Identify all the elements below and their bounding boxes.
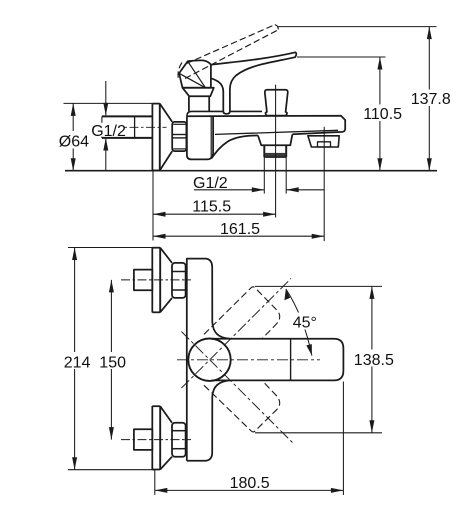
valve body (side) <box>187 116 213 159</box>
lever blade (down position) <box>211 52 296 114</box>
handle cap (hub) <box>179 60 211 87</box>
214 arrows <box>72 248 77 261</box>
upper inlet pipe stub <box>134 270 152 291</box>
flange cone <box>160 104 172 171</box>
dim line G1/2 left upper <box>105 81 107 115</box>
svg-text:G1/2: G1/2 <box>91 123 126 140</box>
161.5 arrows <box>153 234 166 239</box>
cap facet lines <box>179 61 205 88</box>
ext bottom <box>68 469 155 471</box>
ext 138.5 bottom <box>255 432 382 434</box>
dim 180.5 <box>155 489 344 491</box>
dim line G1/2 left lower <box>105 138 107 171</box>
svg-text:115.5: 115.5 <box>192 199 231 216</box>
ext top <box>68 247 155 249</box>
lever 45deg down position (phantom) <box>204 380 280 432</box>
dim line 110.5 <box>379 57 381 171</box>
handle hub circle <box>188 339 230 381</box>
dim line G1/2 bottom right seg <box>286 189 324 191</box>
45deg arc arrows <box>284 289 290 301</box>
aerator at spout tip <box>308 136 339 147</box>
O64 arrows <box>71 103 76 116</box>
hub centerlines <box>177 279 320 444</box>
dim line O64 <box>72 103 74 170</box>
svg-text:180.5: 180.5 <box>230 475 270 492</box>
150 arrows <box>109 280 114 293</box>
cap skirt <box>183 88 214 97</box>
ext 180.5 right <box>342 382 344 496</box>
outlet edge ext lines <box>263 157 265 193</box>
diverter knob <box>265 90 288 116</box>
G1/2 inlet pipe (threaded tail) <box>102 116 152 137</box>
svg-text:110.5: 110.5 <box>363 106 402 123</box>
svg-text:137.8: 137.8 <box>411 91 451 108</box>
dim 214 <box>74 248 76 470</box>
lever 45deg up position (phantom) <box>204 287 280 339</box>
svg-text:214: 214 <box>64 355 91 372</box>
lever grip inner line <box>290 339 292 381</box>
G1/2 left arrows <box>103 103 108 116</box>
svg-text:161.5: 161.5 <box>220 221 260 238</box>
horizontal lever (front) <box>212 339 343 381</box>
45deg leader arc <box>286 289 312 356</box>
svg-text:150: 150 <box>99 355 126 372</box>
G1/2 bottom arrows <box>252 187 264 192</box>
wall flange plate (escutcheon, side) <box>152 103 159 170</box>
dim line 137.8 <box>428 27 430 171</box>
upper flange plate <box>152 248 160 313</box>
svg-text:G1/2: G1/2 <box>193 175 228 192</box>
ext 180.5 left <box>154 470 156 495</box>
raised lever (dashed phantom) <box>178 25 278 88</box>
dim line G1/2 bottom left seg <box>194 189 264 191</box>
115.5 arrows <box>153 212 166 217</box>
spout top edge <box>187 116 345 135</box>
knob / outlet centerline <box>275 85 277 218</box>
shower outlet boss <box>258 134 293 145</box>
spout underside <box>212 135 258 158</box>
lower flange cone <box>160 406 172 469</box>
lower flange plate <box>152 406 160 470</box>
faucet body (front) <box>187 259 230 461</box>
lower hex nut <box>172 423 186 457</box>
pipe centerline <box>97 126 167 128</box>
svg-text:Ø64: Ø64 <box>59 134 89 151</box>
body neck <box>189 96 209 111</box>
lower pipe centerline <box>121 439 191 441</box>
138.5 arrows <box>369 286 374 299</box>
dim 150 <box>110 280 112 440</box>
ext 138.5 top <box>255 285 382 287</box>
body deck line <box>187 111 262 116</box>
upper hex nut <box>172 263 186 298</box>
ext line flange top <box>64 102 153 104</box>
upper flange cone <box>160 248 172 313</box>
137.8 arrows <box>427 27 432 39</box>
svg-text:45°: 45° <box>293 314 317 331</box>
lower inlet pipe stub <box>134 429 152 450</box>
svg-text:138.5: 138.5 <box>354 352 394 369</box>
ext line lever tip <box>297 56 386 58</box>
ext line handle tip raised <box>277 26 437 28</box>
connection hex nut (side) <box>172 122 186 151</box>
spout side silhouette line <box>215 130 338 134</box>
dim line 115.5 <box>153 213 276 215</box>
upper pipe centerline <box>121 279 191 281</box>
110.5 arrows <box>377 57 382 70</box>
180.5 arrows <box>155 488 168 493</box>
dim 138.5 <box>371 286 373 432</box>
baseline (wall bottom reference) <box>65 170 437 172</box>
ext wall line below <box>152 171 154 241</box>
dim line 161.5 <box>153 235 324 237</box>
aerator centerline ext <box>323 127 325 241</box>
shower outlet nipple G1/2 <box>264 145 286 157</box>
